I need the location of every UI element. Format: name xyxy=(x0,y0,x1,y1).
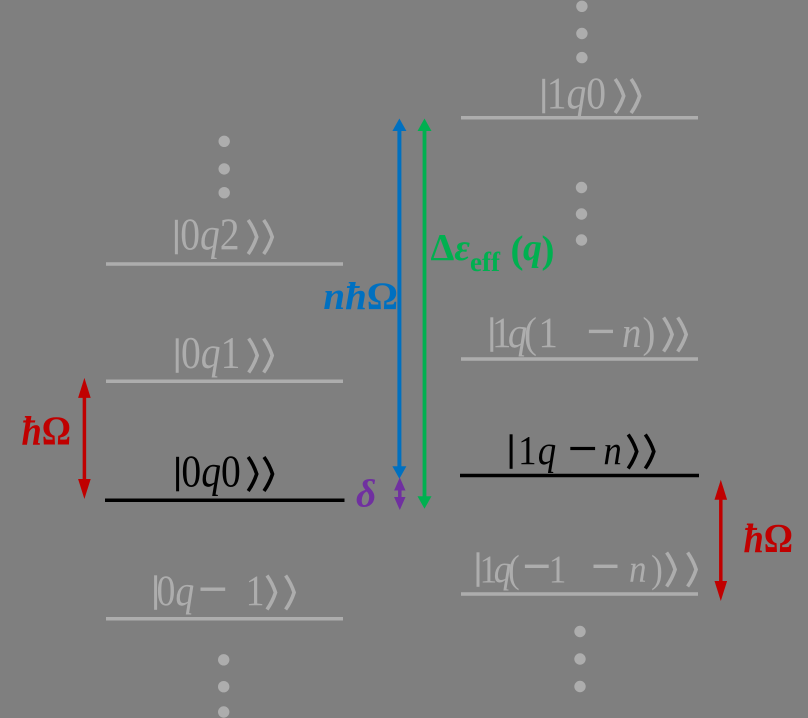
svg-text:): ) xyxy=(643,309,656,356)
svg-text:(: ( xyxy=(511,229,524,272)
svg-text:Δε: Δε xyxy=(431,227,471,269)
svg-text:ħΩ: ħΩ xyxy=(22,408,72,454)
svg-text:): ) xyxy=(542,229,555,272)
svg-text:1q0: 1q0 xyxy=(547,69,606,119)
svg-text:q: q xyxy=(538,428,556,473)
svg-text:q: q xyxy=(523,227,542,269)
svg-text:nħΩ: nħΩ xyxy=(323,275,398,318)
svg-text:n: n xyxy=(629,548,647,591)
svg-text:): ) xyxy=(651,548,663,591)
svg-text:eff: eff xyxy=(470,247,501,277)
svg-text:ħΩ: ħΩ xyxy=(744,516,794,562)
svg-text:1: 1 xyxy=(549,548,567,591)
svg-text:0q1: 0q1 xyxy=(181,329,240,379)
svg-text:n: n xyxy=(622,309,641,356)
svg-text:(: ( xyxy=(508,548,520,591)
svg-text:0q2: 0q2 xyxy=(180,210,239,260)
svg-text:n: n xyxy=(603,428,621,473)
svg-text:1: 1 xyxy=(539,309,558,356)
svg-text:(: ( xyxy=(524,309,537,356)
svg-text:1: 1 xyxy=(518,428,536,473)
svg-text:0q0: 0q0 xyxy=(181,447,240,497)
svg-text:δ: δ xyxy=(356,472,376,516)
